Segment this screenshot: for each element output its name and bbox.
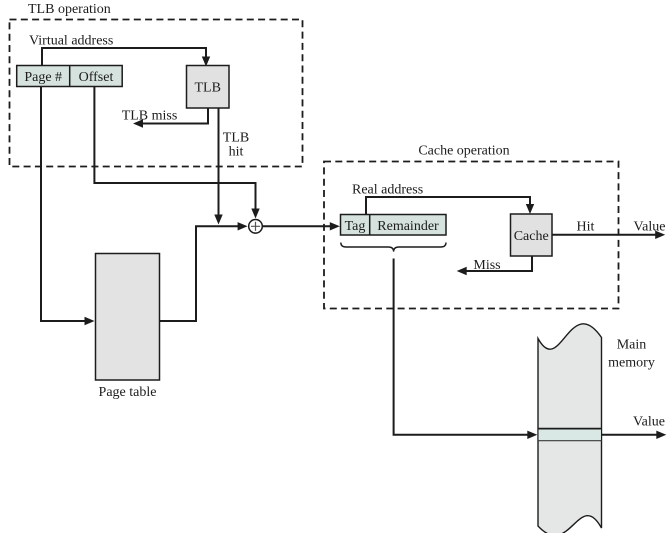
svg-text:Real address: Real address [352, 183, 423, 198]
svg-text:Offset: Offset [79, 70, 114, 85]
svg-text:Cache: Cache [514, 229, 549, 244]
arrowhead into TLB top [202, 57, 210, 67]
divider Page#/Offset [69, 66, 71, 87]
memory row highlight [539, 429, 601, 440]
adder circle [249, 220, 263, 234]
svg-text:Page table: Page table [99, 385, 157, 400]
arrowhead offset into adder [251, 209, 259, 219]
box: Tag / Remainder [341, 215, 447, 236]
memory row top border [538, 428, 602, 430]
arrowhead into Tag box [330, 222, 340, 230]
svg-text:Hit: Hit [577, 220, 595, 235]
memory row bottom border [538, 440, 602, 442]
svg-text:Cache operation: Cache operation [418, 144, 509, 159]
wire: virtual address elbow to TLB [42, 48, 206, 66]
svg-text:Value: Value [634, 220, 666, 235]
arrowhead Value bottom right [656, 431, 666, 439]
arrowhead TLB hit [214, 215, 222, 225]
wire: Offset down and right to adder [94, 87, 255, 212]
adder plus sign [251, 222, 260, 231]
wire: Hit / Value line [552, 234, 658, 236]
box: Cache [511, 214, 553, 256]
svg-text:Value: Value [633, 415, 665, 430]
arrowhead into page table [85, 317, 95, 325]
svg-text:TLB: TLB [194, 81, 220, 96]
svg-text:Virtual address: Virtual address [29, 34, 113, 49]
TLB operation dashed box [10, 20, 303, 167]
box: Page # / Offset [17, 66, 123, 87]
wire: Miss [465, 256, 533, 271]
Cache operation dashed box [324, 162, 619, 309]
wire: Value line from memory row [602, 434, 659, 436]
shape: Main memory column [538, 324, 602, 536]
arrowhead into Cache top [526, 204, 534, 214]
svg-text:Page #: Page # [24, 70, 62, 85]
svg-text:Miss: Miss [473, 258, 500, 273]
wire: Page # down to page table [41, 87, 87, 322]
wire: TLB miss [141, 108, 208, 124]
arrowhead into adder left [238, 222, 248, 230]
svg-text:Tag: Tag [345, 219, 366, 234]
svg-text:TLB miss: TLB miss [122, 109, 178, 124]
svg-text:TLB operation: TLB operation [28, 2, 111, 17]
svg-text:memory: memory [608, 356, 655, 371]
wire: brace down to main memory row [394, 259, 530, 435]
brace under Tag/Remainder [341, 243, 446, 252]
arrowhead Value right [655, 231, 665, 239]
wire: adder to Tag box [262, 225, 332, 227]
svg-text:hit: hit [229, 145, 244, 160]
wire: page table output up to adder line [160, 226, 241, 321]
arrowhead Miss left [457, 267, 467, 275]
wire: real address elbow into Cache [366, 197, 530, 214]
box: TLB [187, 66, 230, 109]
svg-text:TLB: TLB [223, 131, 249, 146]
wire: TLB hit vertical [218, 108, 220, 217]
divider Tag/Remainder [369, 215, 371, 236]
svg-text:Main: Main [617, 338, 647, 353]
arrowhead into memory row [527, 431, 537, 439]
arrowhead TLB miss [133, 119, 143, 127]
box: Page table [96, 254, 160, 381]
svg-text:Remainder: Remainder [377, 219, 439, 234]
